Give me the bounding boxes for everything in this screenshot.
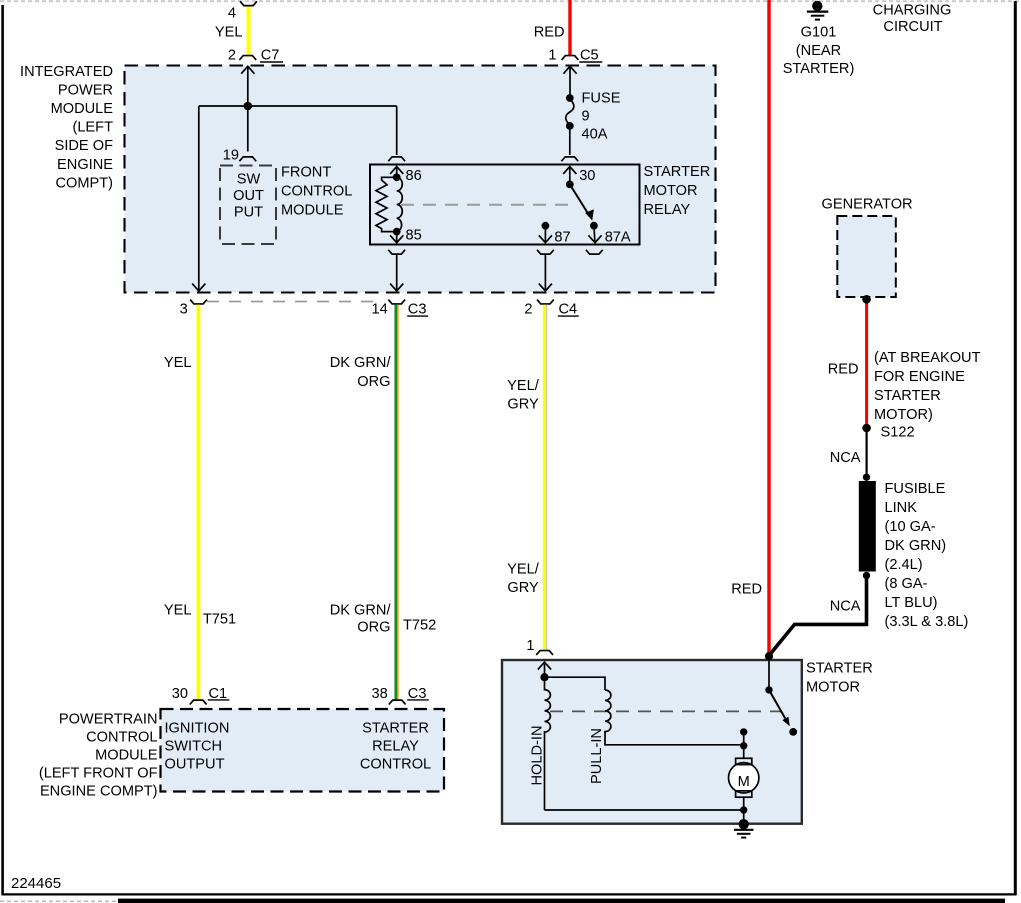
svg-text:M: M (738, 774, 750, 790)
svg-text:RED: RED (534, 24, 565, 40)
fuse: top dot (566, 94, 574, 102)
fuse: S-curve element (566, 99, 574, 125)
fuse: shaft from arrow to top dot (569, 67, 571, 98)
svg-text:OUTPUT: OUTPUT (165, 756, 225, 772)
wire: right branch down to relay 86 (396, 106, 398, 155)
wire: shaft to hold-in junction (544, 662, 546, 677)
svg-text:MODULE: MODULE (51, 101, 114, 117)
svg-text:PULL-IN: PULL-IN (589, 728, 605, 784)
wire: red from generator to S122 (865, 299, 868, 428)
svg-text:ENGINE COMPT): ENGINE COMPT) (40, 784, 158, 800)
svg-text:DK GRN/: DK GRN/ (330, 602, 392, 618)
page frame: left border (1, 5, 4, 895)
starter motor box (502, 660, 802, 824)
fusible link bottom dot (863, 572, 870, 579)
fusible link body (859, 481, 876, 572)
svg-text:GENERATOR: GENERATOR (822, 197, 913, 213)
generator dashed box (837, 216, 896, 297)
integrated power module box (light blue, dashed) (125, 66, 716, 293)
relay contact dot 87A (590, 222, 598, 230)
svg-text:FUSIBLE: FUSIBLE (885, 481, 946, 497)
wire: fuse to relay pin 30 (569, 126, 571, 155)
exit arrow at pin 14 (390, 284, 403, 291)
svg-text:4: 4 (228, 5, 236, 21)
motor M circle (729, 763, 759, 793)
wire: DK GRN/ORG vertical (394, 305, 397, 701)
svg-text:STARTER: STARTER (874, 388, 941, 404)
wire: S122 to fusible link (865, 428, 867, 477)
svg-text:T751: T751 (203, 612, 236, 628)
relay switch pivot dot (30) (566, 181, 574, 189)
svg-text:2: 2 (524, 302, 532, 318)
svg-text:YEL/: YEL/ (507, 562, 540, 578)
page frame: top dashed edge (0, 0, 1021, 2)
gray dashed line inside relay (401, 204, 573, 206)
svg-text:FRONT: FRONT (281, 164, 331, 180)
svg-text:STARTER: STARTER (362, 720, 429, 736)
bottom black bar (top of next image) (118, 899, 1005, 903)
exit arrow at pin 2 C4 (539, 284, 552, 291)
svg-text:ORG: ORG (357, 374, 390, 390)
svg-text:87: 87 (554, 230, 570, 246)
gray dashed connector line below IPM (207, 301, 380, 303)
wire: red from top to 1 C5 (568, 0, 571, 55)
svg-text:FUSE: FUSE (582, 91, 621, 107)
wire: motor to bottom return (743, 797, 745, 824)
connector cup at PCM pin 30 C1 (190, 700, 207, 704)
svg-text:CONTROL: CONTROL (360, 756, 431, 772)
svg-text:T752: T752 (403, 617, 436, 633)
fuse 9 40A: entry arrow (563, 66, 576, 73)
svg-text:MOTOR: MOTOR (806, 679, 860, 695)
svg-text:(LEFT: (LEFT (72, 120, 113, 136)
connector cup below relay pin 85 (388, 250, 405, 254)
junction dot pull-in/motor (740, 742, 747, 749)
svg-text:S122: S122 (881, 424, 915, 440)
svg-text:ORG: ORG (357, 620, 390, 636)
relay pin 86 entry arrow (390, 167, 403, 174)
wire: YEL vertical (pin 3 to PCM 30 C1) (196, 305, 200, 701)
svg-text:30: 30 (172, 686, 188, 702)
svg-text:CHARGING: CHARGING (873, 3, 952, 19)
wire: yellow from top (circuit 4) (247, 6, 251, 56)
svg-text:14: 14 (371, 302, 387, 318)
gray dashed line inside starter motor (550, 710, 781, 712)
svg-text:85: 85 (406, 227, 422, 243)
ground dot on starter box edge (739, 819, 749, 829)
svg-text:IGNITION: IGNITION (165, 720, 230, 736)
svg-text:224465: 224465 (11, 875, 61, 892)
relay: 87 exit arrow (544, 226, 546, 242)
svg-text:GRY: GRY (507, 580, 539, 596)
wire: junction horizontal inside IPM (199, 105, 397, 107)
starter switch arm (769, 690, 785, 719)
connector cup below relay 87 (537, 250, 554, 254)
svg-text:1: 1 (548, 48, 556, 64)
connector cap at 2 C7 (239, 56, 256, 60)
wire: junction to switch pivot (768, 656, 770, 690)
solenoid contact dot upper (740, 728, 747, 735)
wire: YEL/GRY vertical (543, 305, 546, 651)
svg-text:RELAY: RELAY (372, 738, 419, 754)
relay switch arm (570, 184, 590, 215)
svg-text:C4: C4 (559, 302, 578, 318)
junction dot motor/return (740, 806, 747, 813)
svg-text:YEL/: YEL/ (507, 378, 540, 394)
svg-text:POWER: POWER (58, 82, 113, 98)
svg-text:(10 GA-: (10 GA- (885, 519, 936, 535)
connector cup below relay 87A (586, 250, 603, 254)
svg-text:LT BLU): LT BLU) (885, 595, 938, 611)
connector cup at starter pin 1 (536, 651, 553, 655)
svg-text:STARTER: STARTER (644, 164, 711, 180)
wire: to motor top (743, 746, 745, 759)
starter switch arrowhead (782, 717, 789, 727)
svg-text:HOLD-IN: HOLD-IN (530, 726, 546, 786)
relay coil: resistor zigzag (left) (376, 177, 397, 231)
splice dot S122 (862, 424, 871, 433)
starter switch contact dot (789, 728, 797, 736)
svg-text:1: 1 (526, 638, 534, 654)
svg-text:C7: C7 (261, 48, 280, 64)
pull-in coil (605, 690, 744, 745)
wire: contact link (743, 732, 745, 746)
page frame: bottom border (2, 893, 1017, 895)
relay: shaft to coil top dot (396, 167, 398, 177)
svg-text:19: 19 (223, 147, 239, 163)
starter entry arrow (538, 662, 551, 669)
svg-text:MOTOR: MOTOR (644, 183, 698, 199)
connector cup at PCM pin 38 C3 (389, 700, 406, 704)
relay coil bottom dot (85) (393, 228, 401, 236)
svg-text:C5: C5 (580, 48, 599, 64)
svg-text:(3.3L & 3.8L): (3.3L & 3.8L) (885, 614, 969, 630)
relay coil: inductor bumps (right) (397, 177, 403, 231)
connector cap at relay pin 30 (561, 157, 578, 161)
svg-text:MODULE: MODULE (281, 202, 344, 218)
svg-text:ENGINE: ENGINE (57, 157, 113, 173)
connector cap at pin 19 (239, 157, 256, 161)
svg-text:40A: 40A (582, 127, 608, 143)
page frame: right border (1014, 1, 1017, 895)
wire: long red vertical to starter motor (767, 0, 770, 655)
starter switch pivot dot (765, 686, 772, 693)
svg-text:86: 86 (406, 168, 422, 184)
starter solenoid junction dot (red wire) (765, 652, 773, 660)
connector cup at pin 2 C4 (537, 300, 554, 304)
svg-text:CONTROL: CONTROL (281, 183, 352, 199)
wire: pin 85 down to IPM edge (396, 255, 398, 290)
svg-text:MODULE: MODULE (95, 748, 158, 764)
exit arrow at pin 3 (192, 284, 205, 291)
svg-text:(NEAR: (NEAR (796, 43, 841, 59)
svg-text:OUT: OUT (233, 188, 264, 204)
svg-text:STARTER): STARTER) (783, 61, 855, 77)
connector cup at pin 14 C3 (388, 300, 405, 304)
starter motor relay box (370, 165, 640, 245)
ground symbol G101 (812, 1, 822, 11)
relay coil top dot (86) (393, 173, 401, 181)
wire: left branch down to pin 3 (198, 106, 200, 290)
wire: fusible link to starter (thick black jog) (769, 576, 866, 656)
svg-text:2: 2 (228, 48, 236, 64)
svg-text:YEL: YEL (164, 355, 192, 371)
svg-text:GRY: GRY (507, 397, 539, 413)
wire: to pull-in coil (545, 677, 606, 690)
relay pin 30 entry arrow (563, 167, 576, 174)
svg-text:87A: 87A (605, 230, 631, 246)
svg-text:(8 GA-: (8 GA- (885, 576, 928, 592)
svg-text:CONTROL: CONTROL (86, 730, 157, 746)
svg-text:3: 3 (180, 302, 188, 318)
hold-in coil (545, 677, 551, 810)
relay contact dot 87 (542, 222, 550, 230)
relay: exit arrow pin 85 (396, 232, 398, 242)
svg-text:NCA: NCA (830, 598, 861, 614)
relay switch arrowhead (585, 209, 594, 220)
svg-text:SIDE OF: SIDE OF (55, 138, 113, 154)
svg-text:STARTER: STARTER (806, 660, 873, 676)
svg-text:SWITCH: SWITCH (165, 738, 223, 754)
entry arrow at 2 C7 (241, 66, 254, 73)
SW OUT PUT dashed box (220, 166, 276, 245)
connector cap at relay pin 86 (388, 157, 405, 161)
powertrain control module box (dashed) (161, 709, 445, 792)
fusible link top dot (863, 474, 870, 481)
connector cup at pin 3 (190, 300, 207, 304)
svg-text:NCA: NCA (830, 450, 861, 466)
motor top brush block (736, 758, 752, 764)
svg-text:YEL: YEL (215, 24, 243, 40)
svg-text:DK GRN): DK GRN) (885, 538, 947, 554)
generator output dot (862, 295, 871, 304)
svg-text:PUT: PUT (234, 205, 263, 221)
svg-text:FOR ENGINE: FOR ENGINE (874, 369, 965, 385)
wire: hold-in bottom return (545, 809, 744, 811)
svg-text:RED: RED (828, 361, 859, 377)
ground symbol under starter motor (734, 829, 754, 831)
bottom-left pink dashed marquee (0, 900, 118, 902)
fuse: bottom dot (566, 122, 574, 130)
svg-text:9: 9 (582, 109, 590, 125)
svg-text:(2.4L): (2.4L) (885, 557, 923, 573)
wire: arrow shaft down to junction (247, 67, 249, 107)
relay: 87A exit arrow (594, 226, 595, 242)
svg-text:C3: C3 (408, 302, 427, 318)
relay: shaft to switch pivot (569, 167, 571, 184)
svg-text:RED: RED (731, 582, 762, 598)
svg-text:CIRCUIT: CIRCUIT (883, 19, 942, 35)
svg-text:LINK: LINK (885, 500, 918, 516)
connector cap at 1 C5 (562, 56, 579, 60)
svg-text:YEL: YEL (164, 602, 192, 618)
wire: junction to pin 19 (247, 106, 249, 152)
connector cup at top pin 4 (240, 1, 257, 5)
motor bottom brush block (736, 791, 752, 797)
wire: pin 87 down to IPM edge (544, 255, 546, 290)
svg-text:COMPT): COMPT) (55, 175, 113, 191)
svg-text:INTEGRATED: INTEGRATED (20, 64, 113, 80)
svg-text:30: 30 (579, 168, 595, 184)
junction node dot (244, 102, 253, 111)
svg-text:RELAY: RELAY (644, 202, 691, 218)
junction dot hold-in/pull-in (540, 673, 548, 681)
svg-text:(LEFT FRONT OF: (LEFT FRONT OF (39, 766, 158, 782)
svg-text:G101: G101 (801, 25, 837, 41)
svg-text:POWERTRAIN: POWERTRAIN (59, 712, 158, 728)
svg-text:(AT BREAKOUT: (AT BREAKOUT (874, 350, 981, 366)
svg-text:SW: SW (237, 172, 261, 188)
svg-text:38: 38 (371, 686, 387, 702)
svg-text:DK GRN/: DK GRN/ (330, 355, 392, 371)
svg-text:MOTOR): MOTOR) (874, 407, 933, 423)
